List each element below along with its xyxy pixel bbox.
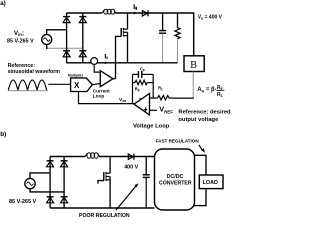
label ID current xyxy=(134,4,137,10)
svg-text:output voltage: output voltage xyxy=(178,117,219,123)
transistor Q1 MOSFET xyxy=(116,13,128,79)
feedback network CF RF xyxy=(133,71,154,104)
wire multiplier bottom input xyxy=(79,92,135,104)
diode D9 bridge2 bottom-right xyxy=(61,197,68,203)
wire bridge right column xyxy=(82,13,84,63)
svg-text:POOR REGULATION: POOR REGULATION xyxy=(79,213,130,218)
wire AC top lead xyxy=(47,30,67,35)
capacitor C2 xyxy=(143,157,150,209)
wire B output xyxy=(192,72,194,99)
output bus bar xyxy=(190,155,206,205)
wire top rail b xyxy=(50,156,85,158)
wire inverting input with R1 xyxy=(150,97,158,99)
svg-text:DC/DC: DC/DC xyxy=(167,174,184,180)
svg-text:B: B xyxy=(190,60,197,71)
resistor Ro load xyxy=(175,13,180,63)
svg-text:Loop: Loop xyxy=(93,94,105,99)
wire feedback right vertical xyxy=(152,74,154,98)
wire sense to current amp xyxy=(94,64,100,72)
svg-text:FAST REGULATION: FAST REGULATION xyxy=(156,138,200,143)
box DC/DC converter xyxy=(155,149,195,210)
box LOAD xyxy=(199,175,223,189)
svg-text:Reference: desired: Reference: desired xyxy=(178,109,231,115)
svg-text:a): a) xyxy=(0,0,6,7)
arrow ID on rail xyxy=(134,12,137,15)
inductor L1 xyxy=(102,9,116,14)
svg-text:85 V-265 V: 85 V-265 V xyxy=(9,199,37,205)
svg-text:Current: Current xyxy=(93,88,110,93)
svg-text:b): b) xyxy=(0,131,6,138)
wire AC bottom lead xyxy=(47,45,48,49)
wire R1 to B xyxy=(169,97,194,99)
wire current amp output xyxy=(113,78,116,80)
diode D3 bridge bottom-left xyxy=(63,51,70,57)
arrow fast regulation xyxy=(199,145,203,151)
op-amp voltage loop xyxy=(134,94,150,116)
capacitor CF xyxy=(133,73,139,75)
svg-text:400 V: 400 V xyxy=(124,165,138,171)
diode D5 boost xyxy=(142,10,148,16)
svg-text:Multiplier: Multiplier xyxy=(68,73,84,77)
svg-text:Reference:: Reference: xyxy=(8,63,36,69)
svg-text:X: X xyxy=(74,81,80,90)
wire AC2 top lead xyxy=(30,173,50,179)
wire multiplier output xyxy=(92,84,100,85)
wire bottom rail xyxy=(67,62,178,64)
resistor RF xyxy=(133,82,135,84)
wire feedback left vertical xyxy=(132,74,134,103)
diode D10 series xyxy=(128,154,134,160)
diode D6 bridge2 top-left xyxy=(47,161,54,167)
diode D4 bridge bottom-right xyxy=(79,51,86,57)
diode D8 bridge2 bottom-left xyxy=(47,197,54,203)
svg-text:Voltage Loop: Voltage Loop xyxy=(133,124,170,130)
transistor Q2 MOSFET xyxy=(98,157,110,209)
box B divider xyxy=(184,56,204,72)
label Is current xyxy=(105,54,108,59)
svg-text:85 V-265 V: 85 V-265 V xyxy=(7,38,34,44)
arrow Is on rail xyxy=(105,61,108,64)
resistor R1 xyxy=(158,96,170,100)
inductor L2 xyxy=(85,153,100,159)
svg-text:LOAD: LOAD xyxy=(203,180,218,186)
capacitor Co output xyxy=(159,13,166,63)
svg-text:Ao = β·: Ao = β· xyxy=(197,87,216,93)
wire bridge2 left column xyxy=(49,157,51,209)
diode D1 bridge top-left xyxy=(63,17,70,23)
wire Vref xyxy=(150,109,158,111)
svg-text:sinusoidal waveform: sinusoidal waveform xyxy=(8,69,61,75)
multiplier X block xyxy=(71,78,93,92)
wire AC2 bottom lead xyxy=(30,189,64,192)
arrow poor regulation xyxy=(116,186,136,210)
svg-text:CONVERTER: CONVERTER xyxy=(159,180,192,186)
wire top rail xyxy=(67,12,102,14)
AC source V2 xyxy=(25,178,35,188)
wire bridge left column xyxy=(66,13,68,63)
op-amp current loop xyxy=(100,71,113,87)
diode D2 bridge top-right xyxy=(79,17,86,23)
sense circle xyxy=(91,58,98,65)
wire bridge2 right column xyxy=(63,157,65,209)
wire sine ref to multiplier xyxy=(48,83,70,85)
wire bottom rail b xyxy=(50,207,154,209)
AC source V1 xyxy=(42,35,52,45)
sine reference waveform xyxy=(8,80,46,90)
diode D7 bridge2 top-right xyxy=(61,161,68,167)
